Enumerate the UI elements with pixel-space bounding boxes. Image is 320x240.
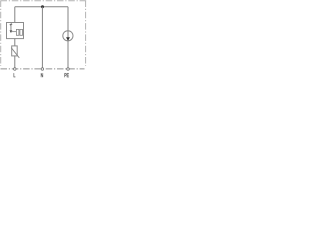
arrester pictogram: surge arrow — [10, 24, 12, 25]
wire: varistor to terminal L — [14, 56, 16, 68]
impulse current arrow through source — [67, 31, 69, 38]
bottom distribution chain line (L/N/PE bus) — [1, 68, 85, 70]
wire: top horizontal from L branch to PE branch — [15, 6, 68, 8]
arrester pictogram: lead to spark gap — [11, 31, 16, 33]
varistor diagonal stroke — [11, 48, 19, 58]
terminal N — [41, 68, 44, 71]
node junction dot on top wire — [41, 5, 44, 8]
wire: PE branch down from top wire — [67, 7, 69, 31]
arrester pictogram: spark-gap electrode 1 — [16, 29, 19, 35]
wire: L branch down into arrester box — [14, 7, 16, 23]
label L — [14, 73, 16, 77]
enclosure boundary: right chain line — [85, 1, 87, 67]
varistor RV1 body — [12, 46, 18, 56]
label N — [41, 73, 43, 77]
surge arrester box U1 — [7, 23, 24, 39]
terminal L — [14, 68, 16, 71]
impulse current source circle — [63, 31, 73, 41]
wire: box to varistor — [14, 39, 16, 46]
wire: source to terminal PE — [67, 41, 69, 68]
wire: N branch from junction to terminal N — [41, 7, 43, 68]
label PE — [65, 73, 69, 77]
enclosure boundary: left chain line — [0, 1, 2, 67]
enclosure boundary: top chain line — [1, 0, 87, 2]
terminal PE — [67, 68, 70, 71]
arrester pictogram: spark-gap electrode 2 — [20, 29, 23, 35]
